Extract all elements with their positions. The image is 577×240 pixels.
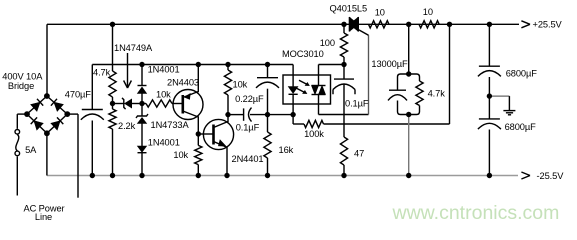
svg-text:100: 100: [320, 38, 335, 48]
svg-text:-25.5V: -25.5V: [537, 171, 565, 181]
svg-text:4.7k: 4.7k: [93, 68, 111, 78]
svg-text:100k: 100k: [304, 129, 324, 139]
svg-text:2N4401: 2N4401: [232, 154, 264, 164]
svg-text:400V 10A: 400V 10A: [2, 72, 43, 82]
svg-text:10: 10: [375, 8, 385, 18]
svg-text:0.22µF: 0.22µF: [235, 94, 264, 104]
svg-text:5A: 5A: [25, 145, 37, 155]
svg-text:10k: 10k: [233, 80, 248, 90]
svg-text:4.7k: 4.7k: [428, 89, 446, 99]
svg-text:0.1µF: 0.1µF: [236, 123, 260, 133]
svg-text:47: 47: [354, 149, 364, 159]
svg-text:Line: Line: [35, 212, 52, 222]
svg-text:2.2k: 2.2k: [118, 121, 136, 131]
svg-text:10k: 10k: [173, 150, 188, 160]
svg-text:6800µF: 6800µF: [506, 68, 538, 78]
svg-text:www.cntronics.com: www.cntronics.com: [392, 202, 560, 224]
svg-text:0.1µF: 0.1µF: [345, 99, 369, 109]
svg-text:MOC3010: MOC3010: [282, 49, 324, 59]
svg-text:Q4015L5: Q4015L5: [330, 4, 368, 14]
svg-text:10: 10: [423, 7, 433, 17]
svg-text:16k: 16k: [279, 145, 294, 155]
svg-text:Bridge: Bridge: [8, 81, 34, 91]
svg-text:1N4733A: 1N4733A: [151, 120, 190, 130]
svg-text:13000µF: 13000µF: [371, 59, 408, 69]
svg-text:1N4001: 1N4001: [148, 65, 180, 75]
svg-text:470µF: 470µF: [65, 90, 91, 100]
svg-text:2N4403: 2N4403: [167, 78, 199, 88]
svg-text:6800µF: 6800µF: [505, 122, 537, 132]
svg-text:+25.5V: +25.5V: [533, 20, 563, 30]
svg-text:1N4001: 1N4001: [148, 138, 180, 148]
svg-text:1N4749A: 1N4749A: [114, 43, 153, 53]
svg-text:10k: 10k: [156, 89, 171, 99]
